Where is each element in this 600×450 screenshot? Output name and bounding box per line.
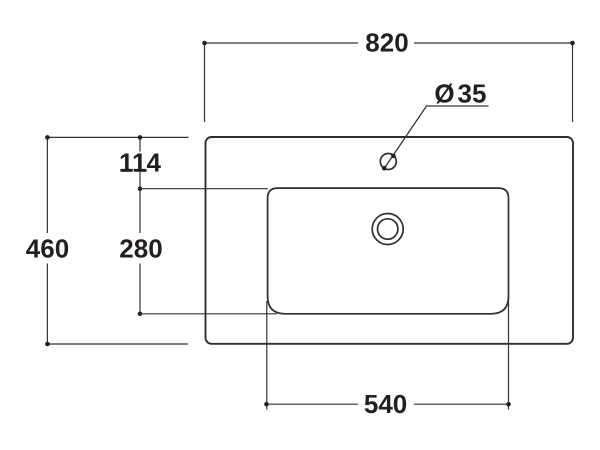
- 460 extension line bottom: [47, 343, 188, 345]
- 460 extension line top: [47, 136, 188, 138]
- 820 dot left: [202, 41, 207, 46]
- svg-text:820: 820: [365, 28, 408, 58]
- svg-text:Ø: Ø: [434, 78, 454, 108]
- counter outline (outer rounded rectangle): [206, 137, 574, 344]
- basin bowl outline (inner rounded rectangle): [268, 188, 509, 314]
- svg-text:460: 460: [26, 234, 69, 264]
- leader line to faucet hole: [384, 106, 488, 169]
- drain outer circle: [372, 214, 403, 245]
- 540 extension line right: [508, 301, 510, 410]
- leader dot lower: [382, 166, 387, 171]
- drain inner circle: [378, 219, 398, 239]
- 820 extension line left: [204, 43, 206, 122]
- 280 dot bottom: [138, 312, 143, 317]
- svg-text:35: 35: [458, 78, 487, 108]
- leader dot upper: [391, 154, 396, 159]
- dimension 540 line: [267, 403, 509, 405]
- svg-text:280: 280: [119, 234, 162, 264]
- 114/280 dot middle: [138, 186, 143, 191]
- serif bar under first 1 of 114: [120, 169, 132, 172]
- 114 dot top: [138, 135, 143, 140]
- dimension 820 line: [205, 42, 573, 44]
- 540 dot left: [264, 402, 269, 407]
- dimension 460 line: [46, 137, 48, 344]
- faucet hole circle: [380, 154, 396, 170]
- 820 extension line right: [572, 43, 574, 122]
- 540 dot right: [506, 402, 511, 407]
- svg-text:540: 540: [364, 389, 407, 419]
- 820 dot right: [570, 41, 575, 46]
- dimension 114 line: [139, 137, 141, 188]
- 540 extension line left: [266, 301, 268, 410]
- dimension 280 line: [139, 189, 141, 314]
- 280 extension line (to basin bottom): [140, 313, 277, 315]
- 114 extension line (to basin top): [140, 188, 268, 190]
- 460 dot bottom: [45, 342, 50, 347]
- serif bar under second 1 of 114: [135, 169, 147, 172]
- 460 dot top: [45, 135, 50, 140]
- svg-text:114: 114: [119, 148, 161, 178]
